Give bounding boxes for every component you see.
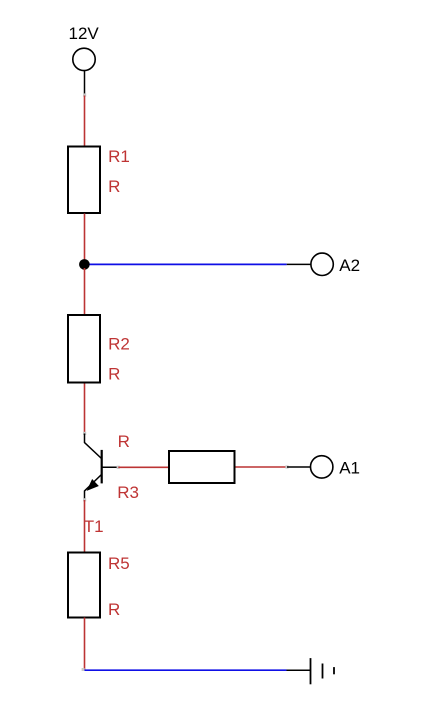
junction dot bbox=[79, 259, 90, 270]
transistor T1 emitter lead bbox=[85, 475, 102, 501]
ground symbol bar 1 bbox=[310, 658, 312, 684]
terminal 12V bbox=[73, 48, 95, 70]
resistor R1 bbox=[68, 147, 100, 214]
wire bbox=[84, 214, 86, 261]
pin marker collector bbox=[83, 432, 86, 435]
wire red below junction bbox=[84, 268, 86, 315]
wire bbox=[84, 618, 86, 671]
svg-text:R: R bbox=[108, 364, 120, 383]
pin end marker bbox=[83, 93, 86, 96]
terminal A1 bbox=[311, 456, 333, 478]
svg-text:R: R bbox=[108, 600, 120, 619]
svg-text:R: R bbox=[108, 177, 120, 196]
corner marker bbox=[82, 668, 85, 671]
wire R3 to A1 bbox=[236, 466, 288, 468]
pin marker emitter bbox=[83, 498, 86, 501]
transistor T1 base bar bbox=[101, 450, 103, 484]
ground symbol bar 3 bbox=[333, 667, 335, 674]
svg-text:R3: R3 bbox=[117, 483, 139, 502]
pin marker A1 bbox=[285, 465, 288, 468]
wire bbox=[84, 96, 86, 147]
transistor T1 base lead bbox=[102, 466, 119, 468]
wire base to R3 bbox=[118, 466, 168, 468]
svg-text:R5: R5 bbox=[108, 554, 130, 573]
resistor R5 bbox=[68, 553, 100, 618]
pin wire terminal A1 bbox=[287, 466, 310, 468]
svg-text:R: R bbox=[118, 432, 130, 451]
wire node A2 rail bbox=[85, 263, 287, 265]
wire bbox=[84, 384, 86, 434]
pin wire terminal A2 bbox=[287, 263, 311, 265]
svg-text:A1: A1 bbox=[339, 459, 360, 478]
pin wire terminal 12V bbox=[84, 71, 86, 96]
svg-text:A2: A2 bbox=[339, 256, 360, 275]
resistor R3 bbox=[169, 451, 235, 483]
wire ground rail bbox=[85, 669, 287, 671]
svg-text:R2: R2 bbox=[108, 334, 130, 353]
svg-text:12V: 12V bbox=[69, 24, 100, 43]
ground symbol bar 2 bbox=[322, 664, 324, 679]
transistor T1 emitter arrow bbox=[88, 480, 98, 490]
resistor R2 bbox=[68, 315, 100, 383]
transistor T1 collector lead bbox=[85, 434, 102, 459]
pin marker base bbox=[117, 466, 120, 469]
svg-text:T1: T1 bbox=[84, 517, 104, 536]
svg-text:R1: R1 bbox=[108, 147, 130, 166]
wire emitter to R5 bbox=[84, 500, 86, 552]
pin wire ground bbox=[287, 669, 311, 671]
terminal A2 bbox=[311, 253, 333, 275]
